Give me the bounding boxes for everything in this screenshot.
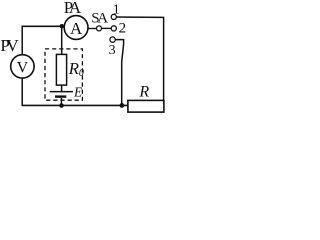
battery E long plate [50, 91, 73, 93]
node junction dot contact-3 branch on bottom rail [120, 103, 125, 108]
switch pole circle [97, 26, 102, 31]
svg-text:V: V [17, 60, 29, 77]
svg-text:3: 3 [109, 43, 116, 58]
resistor R body [128, 100, 164, 112]
resistor R0 body [56, 54, 66, 85]
dashed battery box [45, 49, 82, 100]
node junction dot battery to bottom rail [59, 103, 64, 108]
switch contact 3 circle [110, 37, 115, 42]
svg-text:PV: PV [0, 36, 19, 55]
svg-text:SA: SA [91, 10, 108, 26]
battery E short plate [55, 95, 66, 97]
svg-text:PA: PA [64, 0, 82, 17]
wire left vertical from corner down to voltmeter top [21, 26, 23, 55]
wire right rail vertical down to resistor R [163, 17, 165, 101]
wire R0 bottom to battery [61, 85, 63, 91]
svg-text:A: A [70, 19, 83, 38]
wire ammeter right edge to switch pole [88, 28, 97, 30]
wire voltmeter bottom down to bottom rail [21, 78, 23, 105]
voltmeter PV circle [11, 55, 34, 78]
wire bottom rail [22, 104, 129, 106]
wire contact 1 to right rail [116, 16, 163, 18]
svg-text:R: R [68, 59, 80, 78]
wire top-left horizontal from voltmeter branch corner to ammeter [22, 25, 65, 27]
ammeter PA circle [64, 16, 88, 40]
svg-text:0: 0 [79, 68, 84, 79]
wire contact 3 bend down to bottom rail [115, 40, 123, 105]
switch blade from pole to contact 2 [102, 27, 111, 29]
switch contact 2 circle [111, 26, 116, 31]
svg-text:R: R [138, 84, 149, 101]
svg-text:2: 2 [119, 21, 127, 37]
svg-text:E: E [73, 85, 83, 100]
node junction dot top (ammeter/R0 branch) [60, 24, 64, 28]
wire battery negative down to bottom rail [60, 98, 62, 106]
switch contact 1 circle [111, 14, 116, 19]
wire from top junction down into dashed box to R0 [61, 26, 63, 55]
